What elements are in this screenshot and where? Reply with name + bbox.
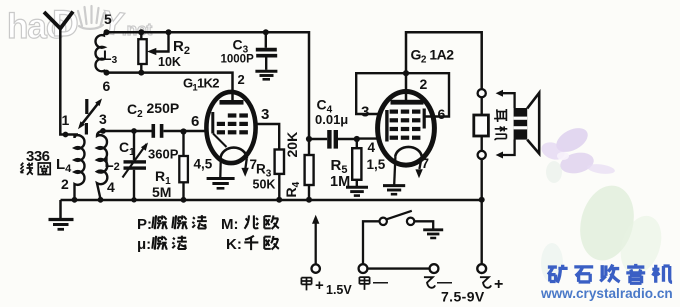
label B- 7.5-9V <box>424 274 485 305</box>
jack terminal upper <box>478 89 486 97</box>
speaker leads with arrows <box>496 90 515 159</box>
svg-text:0.01μ: 0.01μ <box>315 112 348 127</box>
svg-text:+: + <box>315 277 324 294</box>
svg-text:2: 2 <box>420 76 428 92</box>
node 1 junction dot <box>63 132 69 138</box>
node R2 top dot <box>138 29 144 35</box>
ground tube V1 <box>207 179 235 189</box>
svg-text:6: 6 <box>103 78 111 94</box>
svg-text:R4: R4 <box>283 181 302 197</box>
inductor L4 <box>75 135 85 200</box>
svg-text:L3: L3 <box>103 47 118 66</box>
ground tube V2 <box>383 186 405 195</box>
wire bottom bus <box>61 199 482 202</box>
node 3 dot <box>100 128 106 134</box>
svg-text:6: 6 <box>438 106 446 122</box>
svg-text:250P: 250P <box>147 100 180 116</box>
svg-text:—: — <box>373 274 388 291</box>
svg-text:1M: 1M <box>330 174 350 190</box>
svg-text:C2: C2 <box>127 101 143 120</box>
ground R5 <box>346 187 368 195</box>
node bus dots <box>72 197 485 203</box>
speaker driver <box>514 108 528 140</box>
svg-text:L2: L2 <box>105 154 120 173</box>
node pin2 V2 dot <box>403 70 409 76</box>
node C1 top dot <box>131 128 137 134</box>
svg-text:L4: L4 <box>56 156 72 175</box>
capacitor C2 250P <box>152 124 164 138</box>
label 线圈 coil <box>20 163 50 175</box>
resistor R5 1M <box>352 139 361 187</box>
capacitor C1 variable 360P <box>123 131 149 200</box>
label A- <box>359 274 388 291</box>
svg-text:7.5-9V: 7.5-9V <box>441 289 485 305</box>
svg-text:20K: 20K <box>284 132 300 158</box>
svg-text:C1: C1 <box>119 139 135 158</box>
wire A- to B- <box>367 267 430 269</box>
earphone 耳机 <box>474 115 489 136</box>
tube V1 grid dashes <box>217 113 248 134</box>
ground switch <box>423 230 443 238</box>
node C3 dot <box>263 29 269 35</box>
svg-text:50K: 50K <box>253 178 276 192</box>
battery terminal B+ <box>477 264 486 273</box>
node L3 pin5 dot <box>104 29 110 35</box>
node L3 pin6 dot <box>104 70 110 76</box>
svg-text:4: 4 <box>368 140 376 155</box>
svg-text:3: 3 <box>361 104 369 121</box>
pin 7 arrow V1 <box>241 158 248 177</box>
svg-text:5M: 5M <box>152 184 171 200</box>
svg-text:+: + <box>494 276 503 293</box>
tube V2 plate <box>391 100 424 105</box>
svg-text:7: 7 <box>422 156 430 171</box>
antenna <box>44 12 78 135</box>
label A+ 1.5V <box>301 277 352 297</box>
inductor L2 <box>97 131 107 199</box>
svg-text:K:: K: <box>226 236 242 253</box>
svg-text:5: 5 <box>104 11 112 27</box>
node grid junction dot <box>180 128 186 134</box>
svg-text:3: 3 <box>261 106 269 123</box>
svg-text:3: 3 <box>99 111 107 127</box>
svg-text:1,5: 1,5 <box>367 157 386 172</box>
legend line 1 P picofarad M megohm <box>137 215 279 233</box>
node R2 bottom dot <box>138 70 144 76</box>
wire plate V1 to R3 <box>255 124 279 150</box>
tube V2 filament <box>395 147 422 157</box>
ground main (coils) <box>49 200 74 229</box>
watermark crystalradio (decorative text) <box>548 264 672 283</box>
svg-text:10K: 10K <box>158 55 181 69</box>
tube V2 grid rod <box>385 110 388 142</box>
tube V1 1K2 envelope <box>206 92 255 163</box>
wire V1 filament to ground <box>219 158 222 177</box>
svg-text:360P: 360P <box>148 147 179 162</box>
tube V1 plate <box>220 100 244 105</box>
tube V1 filament <box>221 148 248 159</box>
wire right vertical to B+ <box>481 159 483 264</box>
node R2 wiper dot <box>166 29 172 35</box>
wire V2 filament to ground <box>394 157 395 185</box>
jack terminal lower <box>478 151 486 159</box>
tube V2 1A2 envelope <box>378 92 435 166</box>
svg-text:1.5V: 1.5V <box>326 283 352 297</box>
label 耳机 earphone <box>494 109 507 140</box>
label B+ <box>480 276 503 293</box>
wire screen row <box>107 73 233 100</box>
wire grid box tube V2 <box>356 73 449 116</box>
battery terminal A- with switch <box>359 211 434 273</box>
svg-text:4: 4 <box>107 179 115 195</box>
node C4 right dot <box>354 136 360 142</box>
inductor L3 <box>95 32 106 72</box>
svg-text:P:: P: <box>137 216 152 233</box>
legend line 2 u microfarad K kilohm <box>137 236 279 253</box>
svg-text:G11K2: G11K2 <box>183 76 219 94</box>
resistor R3 50K <box>275 150 284 201</box>
node C4 left dot <box>306 136 312 142</box>
svg-text:1: 1 <box>62 112 70 128</box>
svg-text:www.crystalradio.cn: www.crystalradio.cn <box>540 286 673 301</box>
resistor R1 5M <box>179 132 188 201</box>
wire top bus left <box>107 32 310 139</box>
tube V1 grid rod <box>211 112 214 134</box>
tube V1 internal lead <box>213 134 227 148</box>
capacitor C3 1000P <box>255 32 277 79</box>
speaker cone <box>527 93 539 154</box>
svg-text:2: 2 <box>61 176 69 192</box>
resistor R4 20K <box>305 139 314 200</box>
capacitor C4 0.01u <box>309 130 381 149</box>
svg-text:6: 6 <box>191 113 199 130</box>
svg-text:.net: .net <box>122 20 153 39</box>
wire earphone to jack <box>481 136 483 151</box>
wire grid node row <box>103 130 206 132</box>
svg-text:2: 2 <box>238 72 245 87</box>
svg-text:G2 1A2: G2 1A2 <box>411 47 455 66</box>
battery terminal A+ <box>312 215 320 273</box>
wire top bus right <box>406 32 482 100</box>
resistor R2 10K potentiometer <box>138 32 168 72</box>
wire jack to earphone <box>481 97 483 115</box>
tube V2 grid dashes <box>390 109 426 140</box>
svg-text:4,5: 4,5 <box>194 157 213 172</box>
pin 7 arrow V2 <box>415 157 422 179</box>
battery terminal B- <box>430 264 439 273</box>
svg-text:μ:: μ: <box>137 236 151 253</box>
svg-text:1000P: 1000P <box>221 54 255 66</box>
svg-text:M:: M: <box>221 216 239 233</box>
switch K antenna coupling <box>78 99 102 135</box>
